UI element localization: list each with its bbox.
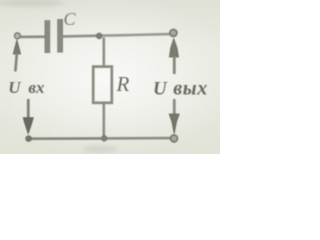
svg-text:вых: вых xyxy=(173,77,208,99)
svg-text:R: R xyxy=(116,72,130,96)
svg-text:C: C xyxy=(64,9,77,29)
svg-text:вх: вх xyxy=(28,78,45,97)
svg-text:U: U xyxy=(8,78,21,97)
svg-text:U: U xyxy=(153,79,168,100)
